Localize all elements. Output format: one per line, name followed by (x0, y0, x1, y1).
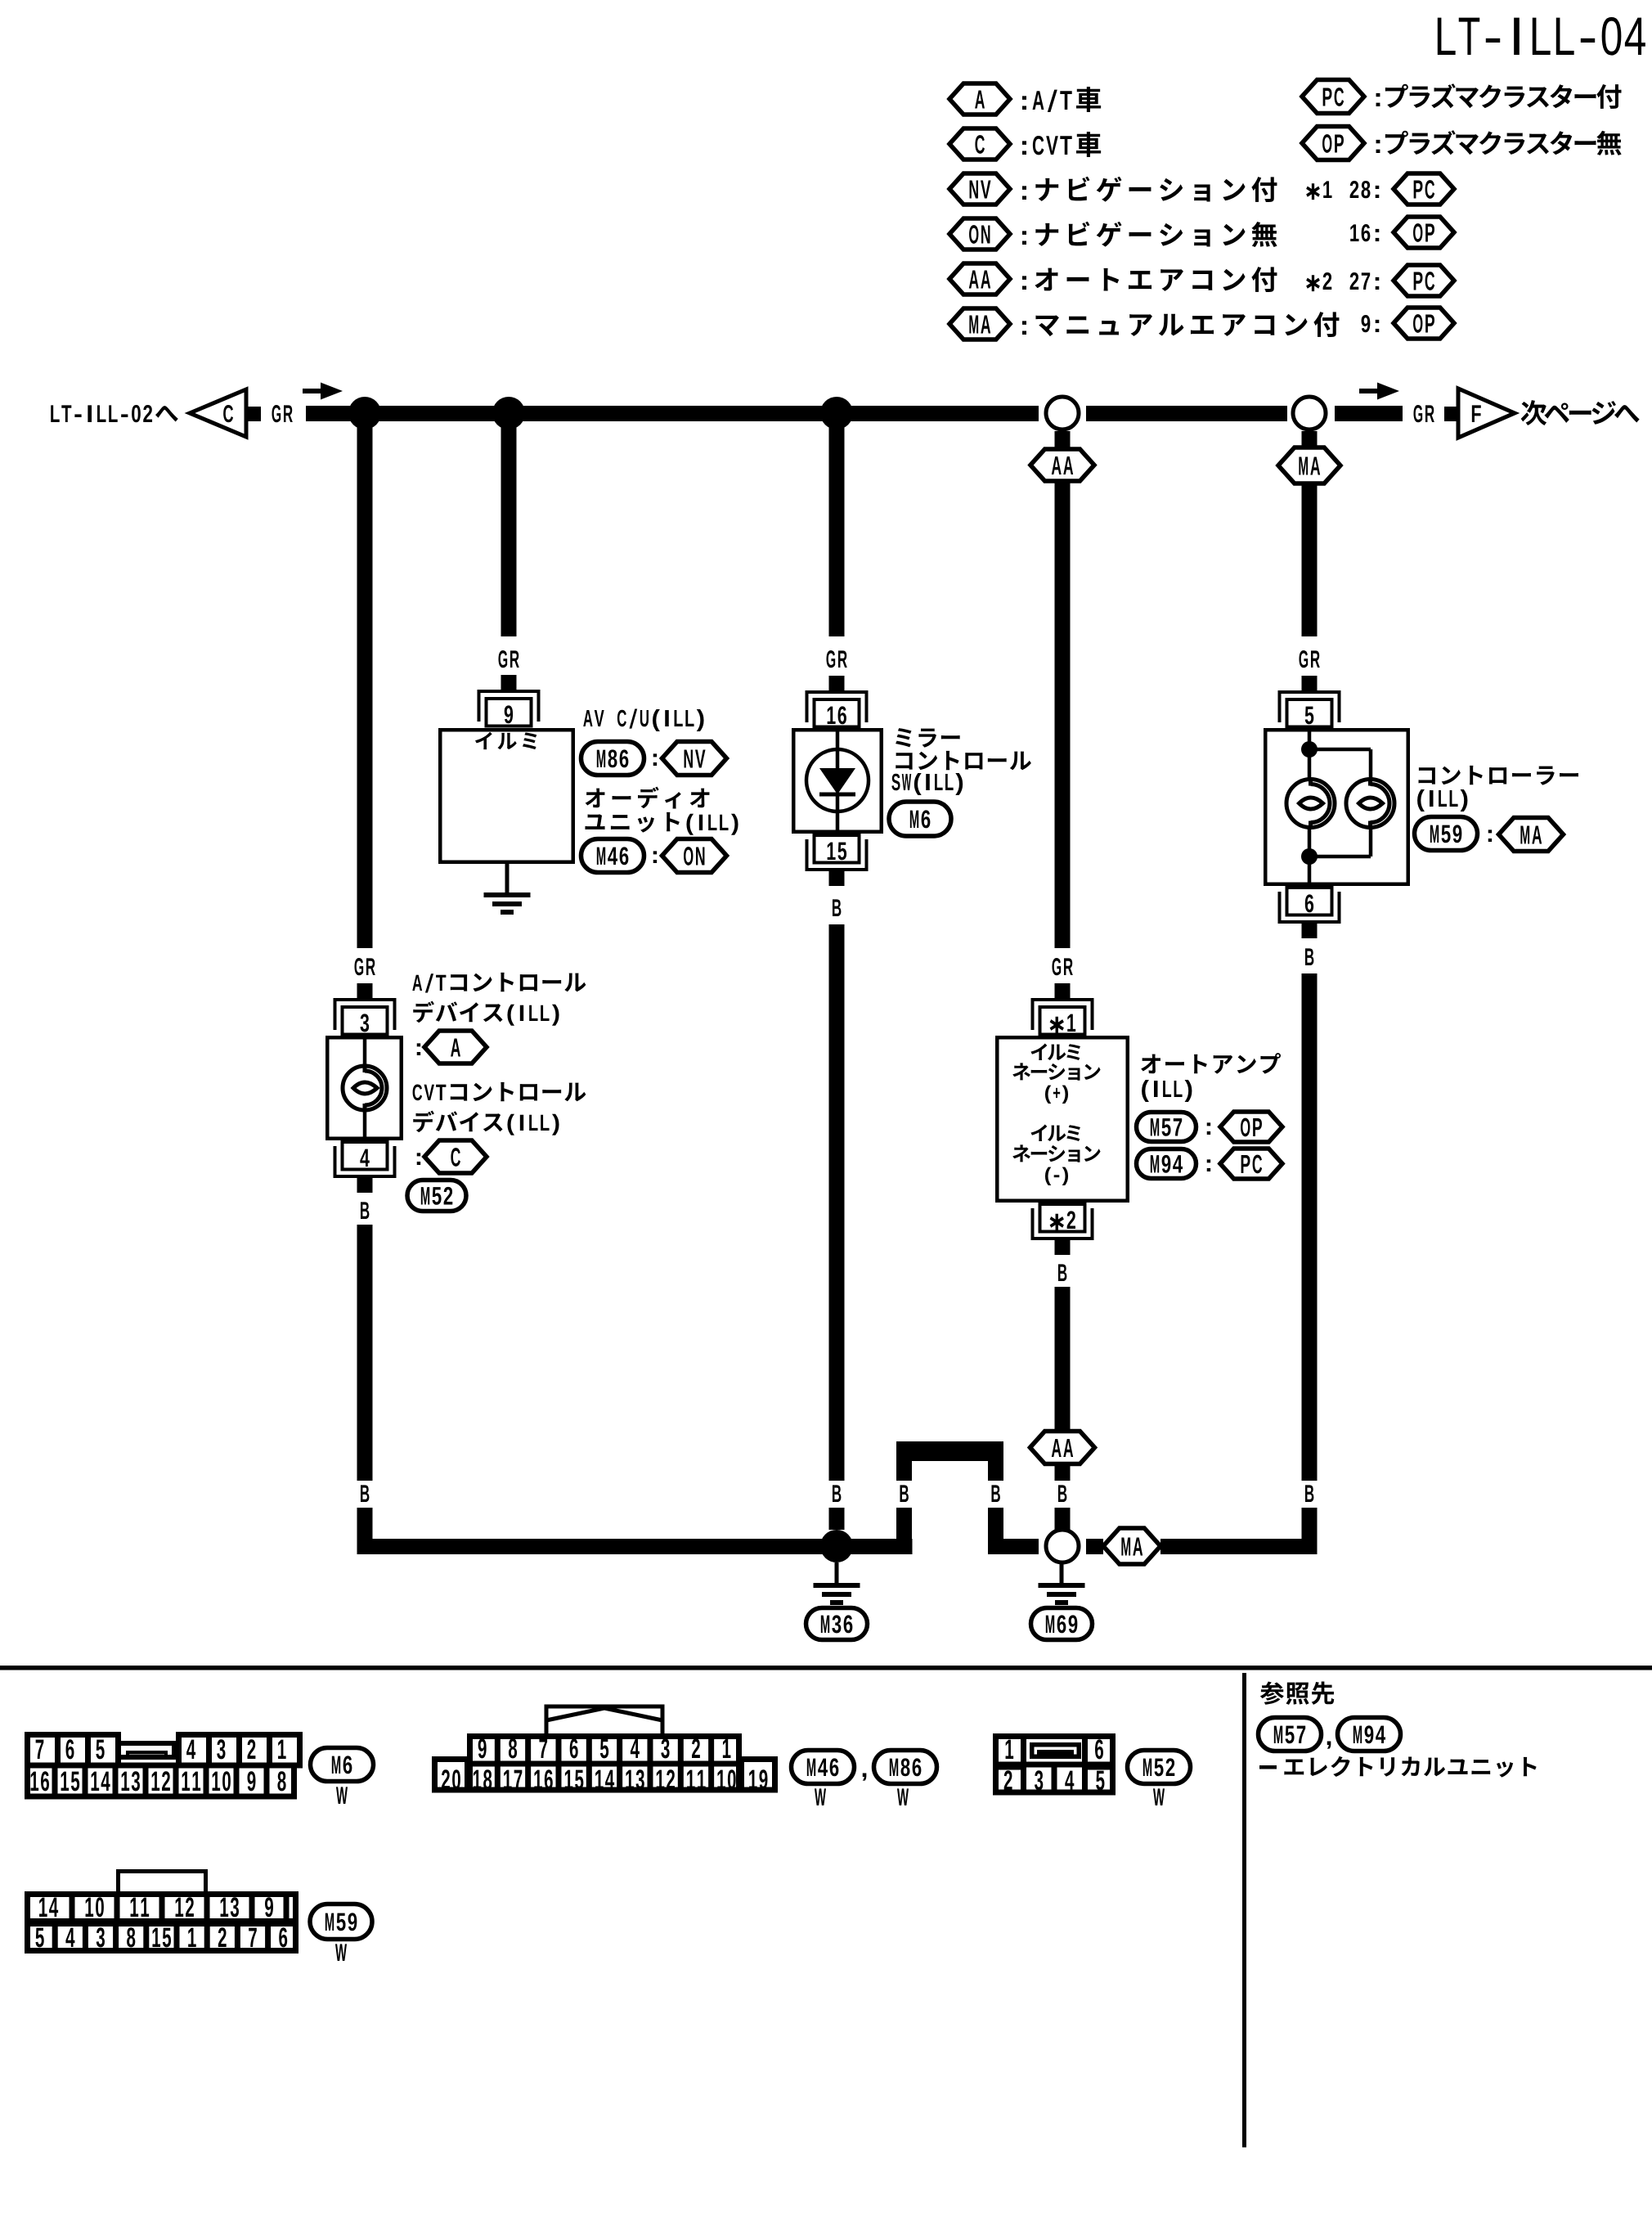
connector pin *1 (auto amp) (1055, 983, 1071, 999)
wire V5 B vertical (1302, 973, 1318, 1481)
wire bus GR segment 3 (1335, 406, 1403, 421)
label AV C/U(ILL) (583, 709, 703, 731)
component controller box M59 (1265, 730, 1408, 884)
connector-junction bottom bus/V4 (M69) (1046, 1530, 1079, 1562)
latch in M6 (118, 1743, 174, 1757)
ref flag OP (1220, 1112, 1282, 1142)
connector ref M57 (1137, 1113, 1196, 1142)
connector label M86 (874, 1751, 937, 1784)
junction dot bottom in controller (1301, 848, 1318, 865)
ground M36 (835, 1562, 839, 1583)
connector label M46 (792, 1751, 855, 1784)
junction bottom bus/V3 (M36 ground) (820, 1530, 853, 1562)
branch wire bottom (1309, 855, 1371, 859)
legend text auto aircon (1022, 267, 1277, 292)
connector pinout M46/M86 (470, 1737, 739, 1791)
wire V3 GR vertical (829, 421, 845, 636)
colon M59 (1488, 830, 1492, 842)
connector ref M86 (581, 742, 644, 776)
wire bottom bus B segment 1 (357, 1539, 913, 1554)
wire label B bottom x=1299 (1058, 1485, 1066, 1502)
page connector triangle F (1458, 389, 1515, 438)
legend text navigation with (1022, 177, 1277, 202)
controller internal wiring (1308, 728, 1312, 780)
wire stub V5 to MA flag (1302, 431, 1318, 447)
component auto amp box M57/M94 (997, 1037, 1128, 1201)
wire label B bottom x=1105 (900, 1485, 908, 1502)
label mirror (896, 728, 960, 748)
connector pin 5 (controller) (1302, 676, 1318, 691)
wire label GR V4 (1052, 958, 1072, 975)
connector-junction bus/V5 (MA) (1293, 397, 1326, 429)
reference M94 (1338, 1718, 1401, 1751)
connector ref M59 (1415, 817, 1478, 851)
connector-junction bus/V4 (AA) (1046, 397, 1079, 429)
label (+) (1045, 1086, 1068, 1104)
colon M46 (653, 851, 657, 863)
latch tab M59 (119, 1872, 206, 1894)
legend hexagon NV (949, 173, 1010, 205)
note 16: (1350, 224, 1379, 241)
label CVT control (413, 1082, 586, 1101)
bump over (crossover) in bottom bus (896, 1441, 1003, 1461)
label irumi (illumination pin) (475, 732, 536, 749)
wire bus GR segment 1 (306, 406, 1039, 421)
wire label GR V2 (498, 650, 518, 668)
note 27: (1350, 272, 1380, 290)
current direction arrow left (303, 389, 322, 393)
label SW ILL (891, 773, 963, 795)
color label W M59 (335, 1944, 347, 1961)
junction bus/V3 (820, 397, 853, 429)
wire V4 B vertical upper (1055, 1287, 1071, 1431)
label controller (1419, 766, 1578, 785)
connector pin 6 (controller) (1287, 888, 1332, 915)
wire bottom bus B segment 2 (988, 1539, 1039, 1554)
wire V2 GR vertical (501, 421, 517, 636)
junction bus/V2 (492, 397, 525, 429)
branch wire top (1309, 748, 1371, 752)
bulb left in controller (1286, 780, 1335, 828)
bulb symbol in A/T device (363, 1036, 367, 1067)
ref flag NV (662, 742, 727, 776)
legend text manual aircon (1022, 312, 1339, 337)
wire label B V3 upper (833, 899, 841, 916)
separator line (0, 1666, 1652, 1670)
page connector triangle C (190, 389, 246, 437)
note *1 (1306, 181, 1331, 200)
wire label GR V3 (826, 650, 846, 668)
colon M57 (1207, 1122, 1210, 1135)
legend hexagon PC (1302, 80, 1364, 114)
legend text plasmacluster with (1376, 83, 1622, 109)
reference heading sanshousaki (1260, 1682, 1334, 1705)
connector pinout M52 (996, 1737, 1113, 1793)
wire label B V5 upper (1305, 948, 1313, 965)
wire label GR left (272, 405, 292, 422)
wire bottom bus B segment 4 (1160, 1539, 1318, 1554)
color label W M46 (815, 1788, 826, 1805)
color label W M6 (336, 1787, 348, 1804)
component A/T control device box M52 (327, 1037, 402, 1139)
legend text A/T sha (1022, 87, 1101, 112)
note 28: (1350, 181, 1380, 198)
wire V3 B vertical (829, 924, 845, 1481)
wire label B bottom x=1217 (991, 1485, 999, 1502)
note hexagon OP 9 (1394, 308, 1454, 339)
label unit ILL (585, 812, 738, 835)
reference electrical unit (1284, 1756, 1536, 1778)
label auto amp (1141, 1053, 1281, 1073)
legend hexagon ON (949, 218, 1010, 250)
option flag MA bottom (1103, 1528, 1160, 1564)
current direction arrow right (1359, 389, 1379, 393)
ref flag MA (1499, 818, 1564, 852)
label A/T control (412, 973, 586, 993)
wire V4 B vertical lower (1055, 1464, 1071, 1481)
colon M94 (1207, 1159, 1210, 1171)
wire stub V4 to AA flag (1055, 431, 1071, 449)
label next page he (1521, 400, 1640, 425)
connector ref M6 (889, 802, 951, 836)
junction bus/V1 (348, 397, 381, 429)
connector pin 9 (AV C/U) (501, 675, 517, 690)
legend text CVT sha (1022, 132, 1101, 157)
note hexagon OP 16 (1394, 217, 1454, 248)
wire V1 GR vertical (357, 421, 373, 948)
legend hexagon C (949, 128, 1010, 160)
colon A (417, 1043, 420, 1055)
label nation 1 (1012, 1063, 1100, 1080)
wire stub to triangle F (1444, 407, 1459, 421)
wire V1 B vertical (357, 1225, 373, 1481)
connector pin 16 (mirror SW) (829, 676, 845, 691)
label controller ILL (1417, 789, 1467, 812)
label auto amp ILL (1142, 1080, 1192, 1102)
wire V1 B final segment (357, 1508, 373, 1540)
wire bus GR segment 2 (1086, 406, 1287, 421)
bulb right in controller (1346, 780, 1394, 828)
wire V5 B final segment (1302, 1508, 1318, 1540)
ref flag ON (662, 839, 727, 873)
wire label B V1 upper (361, 1202, 369, 1219)
legend text navigation without (1022, 222, 1277, 247)
ground ref M69 (1031, 1608, 1093, 1640)
label nation 2 (1012, 1144, 1100, 1162)
legend hexagon OP (1302, 127, 1364, 160)
wire V4 GR vertical (1055, 481, 1071, 948)
wire label B bottom x=1601 (1305, 1485, 1313, 1502)
wire label B bottom x=446 (361, 1485, 369, 1502)
label device ILL 1 (413, 1001, 559, 1026)
option flag AA bottom (1030, 1432, 1095, 1464)
connector pin 3 (AT device) (357, 983, 373, 999)
wire bottom bus B segment 3 (1086, 1539, 1103, 1554)
connector ref M52 (407, 1180, 466, 1212)
connector ref M46 (581, 839, 644, 873)
option flag MA top (1278, 447, 1340, 483)
LED diode symbol in mirror SW (836, 728, 840, 768)
wire label GR V5 (1299, 650, 1319, 668)
wire label B V4 upper (1058, 1264, 1066, 1281)
cell 19 M46 (742, 1760, 775, 1791)
legend hexagon MA (949, 308, 1010, 339)
legend hexagon AA (949, 263, 1010, 294)
label audio (586, 787, 710, 809)
latch trapezoid on M46 (546, 1706, 662, 1733)
connector pin *2 (auto amp) (1040, 1204, 1085, 1232)
note hexagon PC 27 (1394, 265, 1454, 296)
connector label M52 (1128, 1751, 1191, 1784)
wire label B bottom x=1023 (833, 1485, 841, 1502)
colon C (417, 1153, 420, 1165)
legend text plasmacluster without (1376, 130, 1622, 155)
note *2 (1306, 272, 1331, 291)
option flag AA top (1030, 449, 1094, 481)
label control (896, 751, 1031, 770)
color label W M86 (897, 1788, 909, 1805)
note hexagon PC 28 (1394, 173, 1454, 205)
comma M57/M94 (1327, 1742, 1331, 1749)
reference column divider (1242, 1673, 1246, 2147)
connector label M59 (310, 1904, 372, 1940)
label (-) (1045, 1167, 1068, 1185)
wire stub from triangle C (246, 407, 261, 421)
label device ILL 2 (413, 1111, 559, 1135)
wire V4 B final segment (1055, 1508, 1071, 1530)
junction dot top in controller (1301, 741, 1318, 758)
connector pinout M6 (28, 1765, 294, 1796)
connector label M6 (311, 1748, 374, 1782)
note 9: (1362, 315, 1380, 332)
label LT-ILL-02 he (51, 405, 178, 422)
legend hexagon A (949, 83, 1010, 115)
connector pin 4 (AT device) (343, 1142, 388, 1170)
label irumi 2 (1030, 1125, 1080, 1142)
component AV C/U audio unit box M46/M86 (440, 730, 573, 862)
ground below AV C/U (505, 864, 510, 892)
colon M86 (653, 753, 657, 766)
wire V5 GR vertical (1302, 483, 1318, 636)
color label W M52 (1153, 1788, 1165, 1805)
cell 20 M46 (435, 1760, 468, 1791)
connector pin 15 (mirror SW) (815, 835, 860, 863)
connector ref M94 (1137, 1149, 1196, 1179)
latch in M52 (1032, 1745, 1080, 1757)
comma M46/M86 (863, 1774, 867, 1781)
title LT-ILL-04 (1438, 17, 1645, 56)
wire label GR V1 (354, 958, 375, 975)
wire V3 B final segment (829, 1508, 845, 1530)
ref flag A (424, 1031, 487, 1063)
reference electrical unit dash (1259, 1765, 1277, 1769)
wire label GR right (1413, 405, 1434, 422)
reference M57 (1259, 1718, 1322, 1751)
component mirror control SW box M6 (793, 730, 882, 832)
ref flag PC (1220, 1149, 1282, 1179)
ground M69 (1060, 1562, 1064, 1583)
ground ref M36 (806, 1608, 868, 1640)
label irumi 1 (1030, 1044, 1080, 1061)
ref flag C (424, 1140, 487, 1173)
